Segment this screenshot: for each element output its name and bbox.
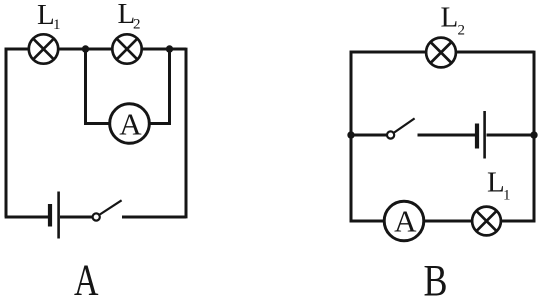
wire A: ammeter branch right (to junction)	[149, 49, 169, 124]
wire A: battery to bottom-left corner	[5, 216, 48, 219]
wire A: switch to battery	[60, 216, 92, 219]
wire B: bottom-left segment	[350, 220, 385, 223]
svg-text:1: 1	[53, 17, 61, 33]
switch S (circuit A, open)	[93, 200, 122, 220]
wire A: left side and top lead to L1	[6, 49, 29, 217]
wire B: top-right segment	[456, 51, 534, 54]
junction dot B-right	[530, 131, 537, 138]
wire B: battery to right junction	[487, 134, 535, 137]
junction dot B-left	[347, 131, 354, 138]
ammeter A1 (circuit A)	[110, 104, 150, 144]
lamp L1 (circuit B)	[472, 207, 501, 236]
junction dot A-right	[166, 45, 173, 52]
svg-text:A: A	[74, 256, 99, 296]
battery (circuit A)	[50, 192, 59, 239]
switch S (circuit B, open)	[387, 118, 415, 138]
lamp L2 (circuit B)	[426, 38, 456, 68]
wire A: bottom right segment (corner to switch gap)	[122, 216, 186, 219]
wire B: top-left segment	[350, 51, 427, 54]
svg-text:B: B	[424, 256, 448, 296]
lamp L2 (circuit A)	[112, 34, 141, 63]
lamp L1 (circuit A)	[29, 34, 58, 63]
svg-text:2: 2	[133, 17, 141, 33]
svg-text:2: 2	[458, 23, 466, 39]
svg-text:A: A	[394, 203, 417, 238]
junction dot A-left	[82, 45, 89, 52]
wire B: switch gap to battery	[418, 134, 476, 137]
wire B: lamp L1 to bottom-right corner	[501, 220, 536, 223]
wire B: left side	[350, 51, 353, 223]
wire B: right side	[533, 51, 536, 223]
wire A: right side	[185, 48, 188, 219]
ammeter A2 (circuit B)	[384, 201, 424, 241]
wire A: between L1 and L2	[58, 48, 112, 51]
svg-text:A: A	[119, 107, 142, 142]
wire A: L2 to top-right corner	[142, 48, 186, 51]
battery (circuit B)	[477, 111, 485, 159]
wire B: middle left (junction to switch)	[351, 134, 387, 137]
wire A: ammeter branch left (from junction down and right)	[86, 49, 111, 124]
svg-text:1: 1	[503, 188, 511, 204]
wire B: ammeter to lamp L1	[424, 220, 472, 223]
svg-text:L: L	[441, 2, 459, 34]
